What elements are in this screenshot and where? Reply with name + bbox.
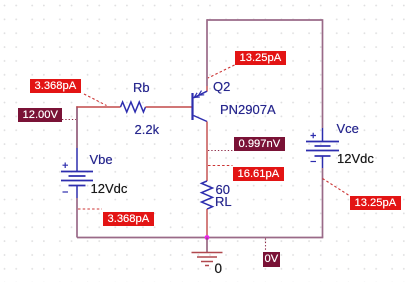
bias voltage label 0.997nV (234, 137, 285, 151)
Vbe minus sign (63, 191, 69, 193)
pointer dash to 16.61pA (208, 165, 233, 167)
pointer dot to 0V (265, 239, 267, 252)
bias current label 3.368pA (bottom) (103, 212, 154, 226)
pointer dot to 0.997nV (208, 150, 234, 152)
Vce plus sign (311, 133, 317, 138)
battery V2 Vce (306, 142, 339, 157)
wire: Vbe top vertical from corner to battery (76, 106, 78, 148)
bias current label 3.368pA (top) (30, 79, 81, 93)
wire: base net horizontal left segment (Vbe+ to Rb) (76, 106, 120, 108)
pointer dash to 13.25pA (right) (323, 179, 351, 197)
wire: collector pin down to RL (206, 122, 208, 182)
pointer dash to 3.368pA (bottom) (78, 208, 102, 210)
value 12Vdc (Vbe) (91, 181, 128, 196)
wire: Vce top pin (322, 128, 324, 142)
wire: Vbe bottom vertical down to bottom wire (76, 198, 78, 238)
bias voltage label 0V (263, 252, 280, 267)
Vbe plus sign (63, 163, 69, 169)
ground name 0 (215, 261, 223, 276)
label Q2 (213, 79, 230, 94)
label RL (215, 194, 232, 209)
bias voltage label 12.00V (18, 108, 62, 122)
label Rb (133, 80, 150, 95)
value 12Vdc (Vce) (337, 151, 374, 166)
value 2.2k (135, 122, 160, 137)
wire: right vertical from top wire down to Vce (322, 19, 324, 128)
bias current label 13.25pA (top) (235, 51, 286, 65)
label Vbe (90, 152, 113, 167)
wire: top horizontal (emitter net to Vce+) (207, 19, 323, 21)
pointer dash to 3.368pA (top) (84, 94, 107, 106)
ground 0 symbol (192, 238, 223, 266)
wire: right vertical from Vce down to bottom wire (322, 168, 324, 238)
bias current label 13.25pA (right) (350, 196, 401, 210)
wire: Vbe bottom pin (76, 186, 78, 199)
pointer dot to 12.00V (62, 119, 76, 121)
resistor RL 60 (202, 181, 213, 209)
pointer dash to 13.25pA (top) (208, 65, 235, 78)
value 60 (216, 182, 230, 197)
battery V1 Vbe (61, 172, 93, 186)
Vce minus sign (311, 161, 317, 163)
junction node dot (205, 235, 210, 240)
wire: Vbe top pin (76, 148, 78, 172)
wire: Vce bottom pin (322, 156, 324, 168)
value PN2907A (220, 102, 276, 117)
wire: Q2 emitter pin stub (206, 86, 208, 92)
bias current label 16.61pA (233, 167, 284, 181)
wire: base net horizontal right segment (Rb to Q2 base) (146, 106, 193, 108)
wire: RL bottom to ground junction (206, 209, 208, 238)
wire: bottom horizontal (ground net) (77, 237, 323, 239)
transistor Q2 PN2907A (PNP) (193, 91, 208, 122)
wire: left vertical from top wire down to Q2 emitter (206, 19, 208, 86)
label Vce (337, 121, 359, 136)
resistor Rb 2.2k (121, 102, 146, 112)
